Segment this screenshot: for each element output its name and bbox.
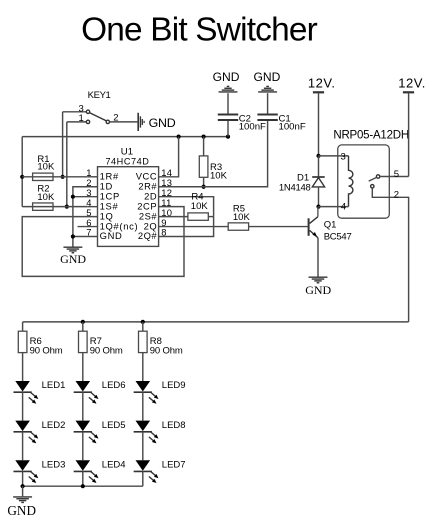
relay contact NO — [371, 185, 374, 188]
resistor R4 — [159, 216, 188, 218]
svg-text:2: 2 — [394, 190, 399, 201]
svg-text:GND: GND — [253, 70, 280, 84]
junction KEY1-1 / R2 / pin4 — [65, 205, 69, 209]
U1 pin 9 wire to R5 — [159, 226, 228, 228]
svg-text:Q1: Q1 — [324, 220, 337, 231]
wire — [82, 432, 84, 460]
svg-text:LED6: LED6 — [102, 380, 126, 391]
junction pin3 / ground vertical — [71, 195, 75, 199]
ground above C2 — [219, 91, 238, 93]
svg-text:GND: GND — [100, 230, 123, 241]
svg-text:100nF: 100nF — [279, 122, 306, 133]
wire R5 to Q1 base — [249, 226, 308, 228]
wire relay pin 2 down to LED rail — [372, 188, 408, 322]
LED LED4 — [76, 460, 91, 471]
ground above C1 — [258, 91, 277, 93]
svg-text:One Bit Switcher: One Bit Switcher — [81, 11, 318, 48]
junction rail / R8 — [141, 320, 145, 324]
wire relay pin 4 — [319, 206, 349, 208]
switch KEY1 arm — [89, 113, 106, 121]
svg-text:4: 4 — [341, 201, 346, 212]
junction relay pin4 / D1 anode / Q1 collector — [316, 205, 320, 209]
switch KEY1 pole contact 2 — [106, 120, 109, 123]
wire LED column to bottom rail — [22, 471, 24, 486]
junction bottom rail / column 2 — [81, 484, 85, 488]
svg-text:LED7: LED7 — [162, 459, 186, 470]
switch KEY1 pin 3 wire — [63, 111, 87, 113]
LED LED3 — [15, 460, 30, 471]
wire 12V right down to relay pin5 — [408, 93, 410, 176]
op IC U1 74HC74D box — [98, 167, 159, 247]
wire LED bottom rail — [23, 485, 143, 487]
U1 pin 7 wire — [73, 236, 98, 238]
resistor R3 — [203, 137, 205, 156]
U1 pin 14 wire to VCC rail — [159, 137, 179, 177]
wire R1 to U1 pin 1 — [87, 176, 97, 178]
junction VCC rail / R3 — [202, 135, 206, 139]
junction KEY1-3 / R1 / pin1 — [61, 175, 65, 179]
LED LED2 — [15, 421, 30, 432]
switch KEY1 pin 1 wire — [67, 121, 87, 123]
svg-text:GND: GND — [60, 252, 86, 266]
svg-text:10K: 10K — [210, 170, 228, 181]
wire relay pin 5 to 12V right — [380, 176, 409, 178]
svg-text:10K: 10K — [191, 201, 209, 212]
wire R8 to LED9 — [142, 353, 144, 381]
junction 12V / relay pin3 / D1 cathode — [316, 154, 320, 158]
capacitor C1 — [267, 93, 269, 113]
svg-text:LED1: LED1 — [42, 380, 66, 391]
svg-text:BC547: BC547 — [324, 231, 352, 242]
svg-text:2Q#: 2Q# — [138, 230, 158, 241]
svg-text:74HC74D: 74HC74D — [105, 156, 149, 166]
svg-text:10K: 10K — [37, 192, 55, 203]
svg-text:100nF: 100nF — [239, 122, 266, 133]
resistor R8 — [142, 322, 144, 331]
switch KEY1 contact 3 — [86, 110, 89, 113]
relay contact common — [376, 175, 379, 178]
svg-text:10K: 10K — [233, 212, 251, 223]
wire — [142, 432, 144, 460]
LED LED1 — [15, 381, 30, 392]
svg-text:LED4: LED4 — [102, 459, 126, 470]
svg-text:LED2: LED2 — [42, 420, 66, 431]
LED LED6 — [76, 381, 91, 392]
wire — [142, 392, 144, 420]
junction VCC rail / C2 — [226, 135, 230, 139]
wire LED supply rail — [23, 321, 409, 323]
svg-text:12V.: 12V. — [308, 75, 336, 90]
wire — [22, 432, 24, 460]
wire VCC rail — [22, 136, 228, 138]
wire LED column to bottom rail — [142, 471, 144, 486]
switch KEY1 contact 1 — [86, 120, 89, 123]
ground symbol below U1 — [63, 246, 82, 248]
wire KEY1 pin1 to IC pin4 (vertical) — [66, 122, 68, 207]
svg-text:GND: GND — [7, 503, 36, 518]
svg-text:1: 1 — [79, 113, 84, 124]
U1 pin 13 wire to C1 — [159, 121, 268, 187]
wire Q1 emitter to ground — [317, 238, 319, 277]
svg-text:LED3: LED3 — [42, 459, 66, 470]
wire — [82, 392, 84, 420]
U1 pin 3 wire — [73, 196, 98, 198]
relay box — [338, 145, 390, 218]
wire KEY1 pin3 to IC pin1 (vertical) — [62, 112, 64, 177]
junction VCC rail / U1 VCC — [177, 135, 181, 139]
wire VCC left vertical — [21, 137, 23, 207]
LED LED5 — [76, 421, 91, 432]
wire to LED ground — [22, 486, 24, 496]
svg-text:1N4148: 1N4148 — [279, 183, 311, 194]
junction R3 / pin13 wire — [202, 185, 206, 189]
svg-text:GND: GND — [305, 283, 331, 297]
svg-text:10K: 10K — [37, 162, 55, 173]
U1 pin 12 to pin 8 wire — [159, 197, 214, 237]
svg-text:GND: GND — [213, 70, 240, 84]
wire R7 to LED6 — [82, 353, 84, 381]
U1 pin 6 stub (nc) — [78, 226, 98, 228]
U1 pin 2 wire to ground vertical — [73, 187, 98, 247]
resistor R6 — [22, 322, 24, 331]
junction pin7 / ground vertical — [71, 234, 75, 238]
LED LED8 — [136, 421, 151, 432]
svg-text:90 Ohm: 90 Ohm — [150, 345, 183, 356]
wire LED column to bottom rail — [82, 471, 84, 486]
svg-text:90 Ohm: 90 Ohm — [90, 345, 123, 356]
svg-text:12V.: 12V. — [398, 75, 426, 90]
resistor R5 — [228, 223, 248, 230]
svg-text:LED8: LED8 — [162, 420, 186, 431]
svg-text:5: 5 — [394, 169, 399, 180]
junction bottom rail / column 1 / ground — [21, 484, 25, 488]
capacitor C2 — [227, 93, 229, 113]
svg-text:LED9: LED9 — [162, 380, 186, 391]
diode D1 1N4148 — [318, 156, 320, 177]
signal ground at KEY1 — [137, 113, 139, 131]
resistor R2 — [22, 206, 87, 208]
svg-text:90 Ohm: 90 Ohm — [30, 345, 63, 356]
relay contact arm — [369, 177, 377, 181]
transistor Q1 BC547 — [308, 218, 310, 236]
ground below Q1 — [309, 276, 328, 278]
wire R2 to U1 pin 4 — [87, 206, 97, 208]
resistor R1 — [22, 176, 87, 178]
wire 1Q loop: U1 pin5 around to pin 11 (2CP) — [22, 207, 184, 277]
wire KEY1 pole to ground — [110, 121, 138, 123]
svg-text:NRP05-A12DH: NRP05-A12DH — [333, 130, 409, 142]
svg-text:LED5: LED5 — [102, 420, 126, 431]
wire relay pin 3 — [319, 155, 349, 157]
LED LED7 — [136, 460, 151, 471]
relay coil — [349, 156, 353, 207]
svg-text:3: 3 — [341, 152, 346, 163]
wire — [22, 392, 24, 420]
resistor R7 — [82, 322, 84, 331]
svg-text:KEY1: KEY1 — [88, 90, 111, 101]
svg-text:GND: GND — [149, 116, 176, 130]
junction VCC / R1 left — [20, 175, 24, 179]
ground below LEDs — [13, 496, 32, 498]
wire 12V left down to relay coil — [318, 93, 320, 155]
junction rail / R7 — [81, 320, 85, 324]
wire R6 to LED1 — [22, 353, 24, 381]
LED LED9 — [136, 381, 151, 392]
